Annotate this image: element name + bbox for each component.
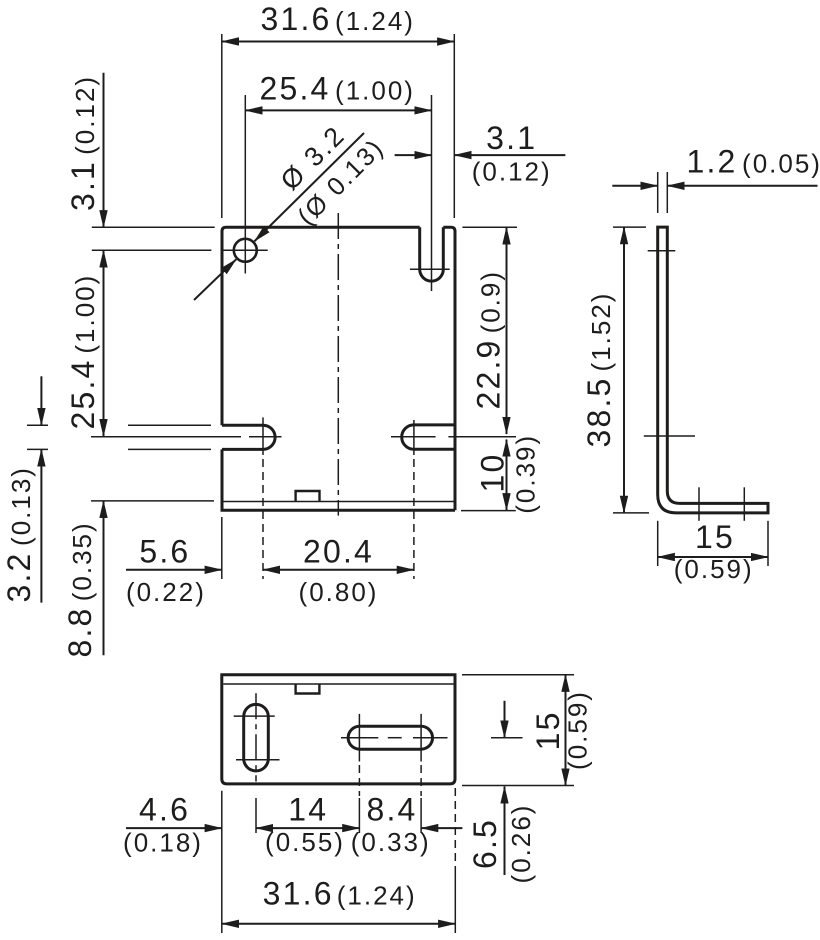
dim 15 side: extension lines: [657, 521, 659, 566]
svg-text:8.4: 8.4: [366, 791, 417, 827]
dim 15 side: line: [658, 556, 768, 558]
svg-text:1.2: 1.2: [686, 144, 737, 180]
front top-right open slot: [420, 227, 444, 281]
svg-text:31.6: 31.6: [260, 1, 331, 37]
svg-text:(1.24): (1.24): [335, 6, 415, 36]
svg-text:14: 14: [288, 791, 328, 827]
svg-text:(0.05): (0.05): [742, 149, 820, 179]
dim 14 / 8.4 extension ticks: [358, 798, 360, 833]
svg-text:(0.39): (0.39): [511, 434, 541, 514]
dim 8.8 left: line: [103, 501, 105, 655]
top-right slot crosshair: [410, 268, 450, 270]
svg-text:3.1: 3.1: [65, 160, 101, 211]
svg-text:(0.55): (0.55): [265, 827, 345, 857]
front vertical centerline: [337, 213, 339, 516]
dim 15 bottom-right: line: [565, 675, 567, 786]
bottom view fold line: [223, 683, 453, 685]
dim 3.1 left: line: [103, 73, 105, 228]
bottom left slot centerline: [255, 693, 257, 781]
dim 38.5: line: [623, 227, 625, 513]
dim 22.9 right: line: [506, 227, 508, 434]
svg-text:25.4: 25.4: [259, 71, 330, 107]
front bottom tab: [296, 491, 320, 501]
side view hole centerline tick: [648, 250, 676, 252]
bottom view outline: [222, 675, 455, 784]
left slot end centerline vertical: [262, 417, 264, 455]
dim 20.4: line: [263, 569, 414, 571]
dim 25.4 left: line: [103, 250, 105, 436]
front left side slot: [222, 425, 275, 449]
bottom view notch: [296, 685, 320, 694]
dim 4.6: extension tick at 256: [255, 798, 257, 833]
dim 3.1 top-right: arrows: [395, 154, 432, 156]
svg-text:(0.9): (0.9): [476, 270, 506, 333]
svg-text:4.6: 4.6: [139, 791, 190, 827]
svg-text:(1.00): (1.00): [70, 274, 100, 354]
bottom view right slot: [348, 726, 432, 749]
dim 6.5: upper arrow: [504, 701, 506, 738]
svg-text:20.4: 20.4: [303, 534, 374, 570]
front right side slot: [402, 425, 455, 449]
bottom right slot vertical ticks: [358, 714, 360, 762]
svg-text:(0.12): (0.12): [472, 157, 552, 187]
svg-text:6.5: 6.5: [467, 818, 503, 869]
right slot centerline: [391, 436, 436, 438]
dim 31.6 top: extension lines: [221, 34, 223, 218]
svg-text:15: 15: [695, 519, 735, 555]
hole crosshair horizontal: [224, 249, 268, 251]
dim 38.5: extension ticks: [613, 226, 646, 228]
left dims: extension ticks top: [92, 226, 215, 228]
dim 15 bottom-right: extension lines: [462, 674, 574, 676]
dim 5.6: line: [126, 569, 222, 571]
svg-text:(0.18): (0.18): [123, 828, 203, 858]
svg-text:(0.26): (0.26): [506, 804, 536, 884]
dim 1.2: extension lines: [657, 172, 659, 213]
side view leg tick 2: [743, 487, 745, 521]
dim 31.6 top: dimension line: [222, 41, 454, 43]
dim 3.2 left: extension ticks: [27, 424, 48, 426]
dim 31.6 bottom: line: [222, 923, 455, 925]
svg-text:15: 15: [530, 710, 566, 750]
dim 6.5: extension tick: [491, 737, 523, 739]
svg-text:(1.24): (1.24): [337, 881, 417, 911]
svg-text:31.6: 31.6: [263, 876, 334, 912]
top-right slot centerline vertical: [431, 95, 433, 291]
svg-text:8.8: 8.8: [62, 606, 98, 657]
hole centerline vertical: [244, 95, 246, 274]
svg-text:3.2: 3.2: [1, 551, 37, 602]
dim 25.4 top: dimension line: [245, 109, 431, 111]
svg-text:22.9: 22.9: [471, 338, 507, 409]
dim 22.9 right: extension lines: [462, 226, 517, 228]
bottom left slot ticks: [234, 715, 275, 717]
bottom view left slot: [244, 704, 269, 771]
hole: [234, 239, 257, 262]
svg-text:(0.33): (0.33): [351, 827, 431, 857]
side view profile: [658, 227, 768, 513]
svg-text:(1.52): (1.52): [586, 292, 616, 372]
dim 8.8 left: extension line: [91, 500, 214, 502]
svg-text:5.6: 5.6: [139, 534, 190, 570]
svg-text:(0.35): (0.35): [67, 521, 97, 601]
side view slot centerline tick: [644, 435, 695, 437]
svg-text:3.1: 3.1: [486, 120, 537, 156]
dim 14: line: [256, 827, 359, 829]
svg-text:(0.59): (0.59): [674, 554, 754, 584]
dim 10 right: line: [506, 440, 508, 511]
svg-text:(0.22): (0.22): [126, 577, 206, 607]
svg-text:(0.80): (0.80): [299, 577, 379, 607]
hole leader line: [254, 133, 364, 241]
dim 31.6 bottom: extension lines: [221, 791, 223, 933]
dim 3.2 left: arrows: [40, 376, 42, 425]
dim 8.4: right arrow: [421, 827, 462, 829]
dim 5.6: extension lines below front view: [221, 517, 223, 579]
svg-text:38.5: 38.5: [581, 376, 617, 447]
dim 6.5: lower arrow: [504, 787, 506, 876]
svg-text:(0.13): (0.13): [6, 466, 36, 546]
svg-text:(0.12): (0.12): [70, 75, 100, 155]
svg-text:10: 10: [475, 453, 511, 493]
side view leg tick 1: [698, 487, 700, 521]
right slot end centerline vertical: [413, 420, 415, 455]
front fold line: [224, 501, 454, 503]
dim 4.6: line: [126, 827, 222, 829]
svg-text:25.4: 25.4: [65, 358, 101, 429]
bottom right slot centerline: [341, 737, 378, 739]
left slot centerline: [91, 436, 241, 438]
dim 1.2: arrows: [612, 185, 657, 187]
svg-text:(0.59): (0.59): [563, 690, 593, 770]
front view outline: [222, 227, 420, 425]
svg-text:(1.00): (1.00): [335, 76, 415, 106]
